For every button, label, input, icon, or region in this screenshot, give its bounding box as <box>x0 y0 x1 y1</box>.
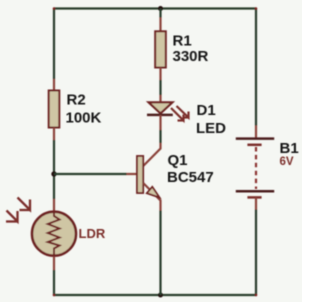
LED light arrow 2 <box>171 108 185 121</box>
svg-text:330R: 330R <box>173 48 209 65</box>
svg-text:B1: B1 <box>280 140 299 157</box>
transistor Q1 base bar <box>137 156 143 193</box>
svg-text:BC547: BC547 <box>167 169 214 186</box>
battery B1 pin top <box>255 126 257 139</box>
wire R1 to LED <box>159 80 161 95</box>
wire left column lower <box>53 270 55 295</box>
LDR pin top <box>53 199 55 211</box>
LDR light arrow 2 <box>6 211 19 222</box>
LED D1 anode pin <box>159 95 161 102</box>
svg-text:LED: LED <box>196 120 226 137</box>
wire bottom rail <box>54 294 256 296</box>
node emitter-bottom junction <box>158 293 163 298</box>
svg-text:R1: R1 <box>173 33 192 50</box>
corner dot bottom-right <box>255 294 258 297</box>
corner dot bottom-left <box>53 294 56 297</box>
corner dot top-left <box>53 7 56 10</box>
LDR light arrow 1 <box>18 198 32 211</box>
node base junction <box>51 171 56 176</box>
battery B1 dashed link <box>255 147 257 189</box>
wire R1 top stub <box>159 9 161 18</box>
wire right column upper <box>255 9 257 126</box>
LED light arrow 1 <box>177 106 190 118</box>
battery B1 plate short 2 <box>247 196 261 199</box>
wire base horizontal <box>54 173 127 175</box>
LDR zigzag <box>48 213 60 255</box>
svg-text:R2: R2 <box>67 92 86 109</box>
wire right column lower <box>255 210 257 296</box>
battery B1 plate short 1 <box>247 144 261 147</box>
svg-text:LDR: LDR <box>79 226 106 241</box>
svg-text:D1: D1 <box>197 102 216 119</box>
svg-text:Q1: Q1 <box>168 152 188 169</box>
LDR pin bottom <box>53 257 55 271</box>
resistor R1 pin top <box>159 18 161 32</box>
LED D1 triangle <box>149 102 173 113</box>
resistor R2 body <box>49 91 60 128</box>
resistor R2 pin bottom <box>53 128 55 141</box>
transistor Q1 emitter arrowhead <box>147 187 160 198</box>
LED D1 cathode bar <box>147 114 173 117</box>
battery B1 plate long 2 <box>236 190 274 193</box>
battery B1 plate long 1 <box>236 137 274 140</box>
LDR body DR <box>32 212 76 256</box>
wire left column mid <box>53 140 55 199</box>
resistor R2 pin top <box>53 79 55 91</box>
wire LED to collector <box>159 130 161 143</box>
wire left column upper <box>53 9 55 80</box>
resistor R1 pin bottom <box>159 68 161 81</box>
wire emitter to bottom rail <box>159 211 161 296</box>
transistor Q1 collector pin <box>143 143 160 166</box>
svg-text:100K: 100K <box>66 110 102 127</box>
transistor Q1 emitter <box>143 183 160 211</box>
corner dot top-right <box>255 7 258 10</box>
battery B1 pin bottom <box>255 197 257 209</box>
resistor R1 body <box>155 31 166 67</box>
wire top rail <box>54 7 256 9</box>
LED D1 cathode pin <box>159 115 161 130</box>
transistor Q1 base pin <box>127 173 138 175</box>
node top junction <box>158 6 163 11</box>
svg-text:6V: 6V <box>280 156 294 168</box>
